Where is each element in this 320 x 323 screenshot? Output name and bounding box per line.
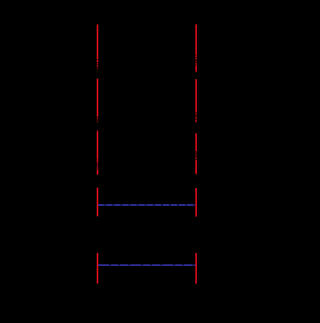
lifeline-right dash 15 bbox=[195, 154, 197, 156]
message 1 (blue dashed) dashes bbox=[98, 204, 195, 206]
lifeline-right dash 3 bbox=[195, 58, 197, 60]
lifeline-left dash 8 bbox=[97, 119, 99, 120]
lifeline-right dash 5 bbox=[195, 63, 197, 65]
message 2 (blue dashed) base bbox=[98, 264, 195, 266]
lifeline-left dash 3 bbox=[97, 63, 99, 65]
lifeline-right dash 11 bbox=[195, 117, 197, 119]
message 1 (blue dashed) base bbox=[98, 204, 195, 206]
lifeline-right segment 17 bbox=[195, 160, 197, 174]
lifeline-left dash 2 bbox=[97, 60, 99, 62]
lifeline-right dash 18 bbox=[195, 173, 197, 176]
lifeline-right segment 6 bbox=[195, 65, 197, 71]
lifeline-left segment 1 bbox=[97, 24, 99, 59]
lifeline-left segment 6 bbox=[97, 79, 99, 117]
lifeline-right dash 7 bbox=[195, 71, 197, 74]
lifeline-right segment 8 bbox=[195, 79, 197, 112]
lifeline-right dash 16 bbox=[195, 157, 197, 159]
lifeline-right dash 10 bbox=[195, 115, 197, 117]
lifeline-right segment 19 bbox=[195, 188, 197, 217]
lifeline-right dash 12 bbox=[195, 120, 197, 122]
message 2 (blue dashed) dashes bbox=[98, 264, 195, 266]
lifeline-left dash 9 bbox=[97, 121, 99, 122]
lifeline-left dash 14 bbox=[97, 165, 99, 167]
lifeline-right segment 20 bbox=[195, 253, 197, 284]
lifeline-left dash 12 bbox=[97, 160, 99, 162]
lifeline-left segment 11 bbox=[97, 132, 99, 160]
lifeline-left dash 7 bbox=[97, 117, 99, 119]
lifeline-left segment 17 bbox=[97, 188, 99, 217]
lifeline-left dash 5 bbox=[97, 67, 99, 69]
lifeline-left dash 15 bbox=[97, 167, 99, 169]
lifeline-left dash 13 bbox=[97, 163, 99, 165]
lifeline-right dash 4 bbox=[195, 60, 197, 62]
lifeline-left dash 4 bbox=[97, 65, 99, 67]
lifeline-left dash 10 bbox=[97, 130, 99, 131]
lifeline-right dash 2 bbox=[195, 55, 197, 57]
lifeline-left segment 16 bbox=[97, 169, 99, 174]
lifeline-right dash 9 bbox=[195, 113, 197, 115]
lifeline-right dash 14 bbox=[195, 152, 197, 154]
lifeline-right segment 13 bbox=[195, 133, 197, 151]
lifeline-left segment 18 bbox=[97, 253, 99, 284]
lifeline-right segment 1 bbox=[195, 24, 197, 55]
